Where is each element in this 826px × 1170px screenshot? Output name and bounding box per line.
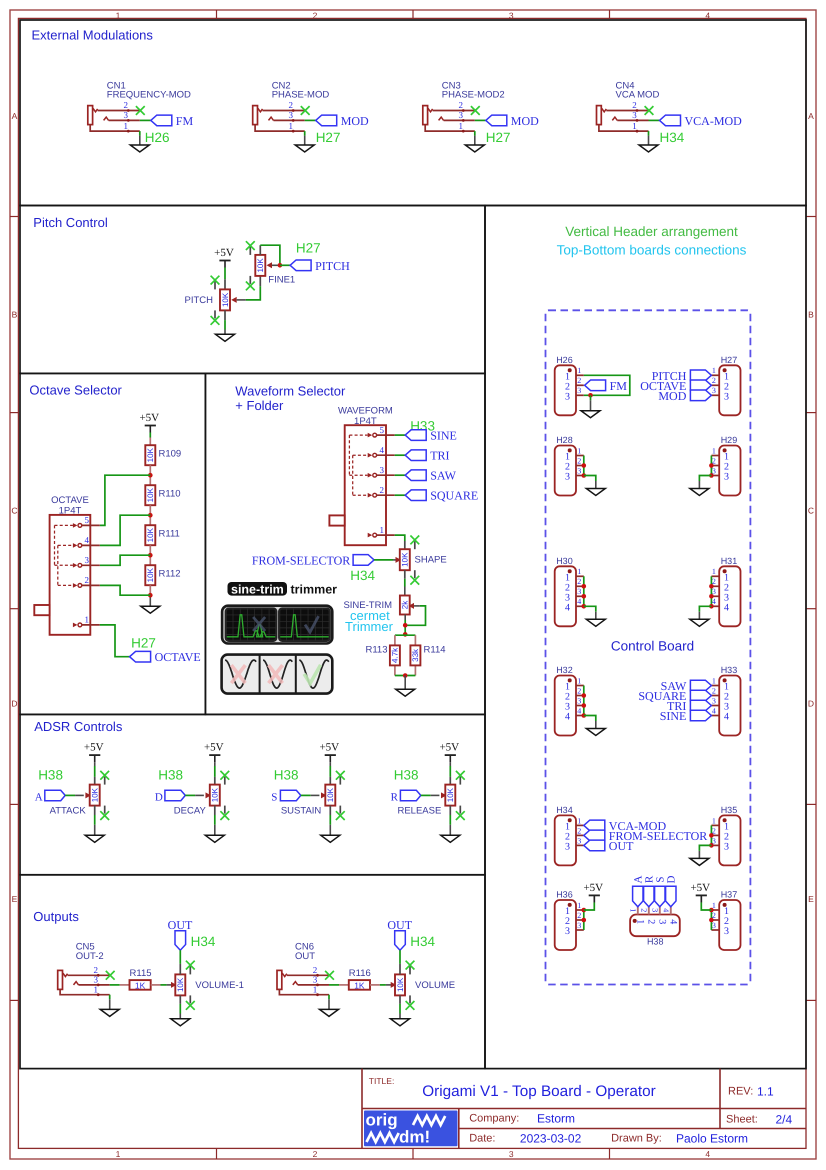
svg-text:Drawn By:: Drawn By: (611, 1132, 662, 1144)
svg-text:1: 1 (712, 567, 716, 576)
svg-text:Trimmer: Trimmer (345, 619, 394, 634)
junction FINE1 wiper node (278, 263, 283, 268)
logo origami (364, 1111, 458, 1147)
svg-text:FROM-SELECTOR: FROM-SELECTOR (252, 553, 350, 567)
svg-text:3: 3 (85, 555, 90, 565)
global label SQUARE (405, 490, 426, 501)
svg-text:1: 1 (85, 615, 90, 625)
wire SW pin3 to SAW (395, 474, 406, 476)
svg-text:VCA-MOD: VCA-MOD (685, 114, 743, 128)
svg-text:B: B (808, 310, 814, 320)
svg-text:3: 3 (632, 110, 637, 120)
svg-text:2: 2 (577, 456, 581, 465)
global label A (H38 pin1) (633, 886, 643, 907)
svg-text:2: 2 (712, 376, 716, 385)
svg-text:10K: 10K (211, 787, 220, 802)
svg-text:3: 3 (724, 472, 729, 483)
svg-text:10K: 10K (146, 567, 155, 582)
svg-text:OUT: OUT (609, 839, 634, 853)
svg-text:10K: 10K (401, 552, 410, 567)
svg-text:1K: 1K (135, 980, 146, 990)
svg-text:5: 5 (379, 425, 384, 435)
section box right (headers) (485, 206, 806, 1069)
svg-text:2: 2 (313, 1149, 318, 1159)
pot FINE1 bottom pin (259, 276, 261, 286)
svg-text:3: 3 (724, 926, 729, 937)
wire parallel top rail (395, 634, 416, 636)
svg-text:1: 1 (632, 121, 637, 131)
wire H30 ground chain (583, 576, 585, 606)
wire R109-R110 (149, 465, 151, 485)
svg-text:2: 2 (712, 686, 716, 695)
svg-text:PHASE-MOD2: PHASE-MOD2 (442, 90, 505, 101)
resistor R111 (10K) (145, 525, 155, 545)
svg-text:3: 3 (712, 386, 716, 395)
svg-text:MOD: MOD (511, 114, 539, 128)
svg-text:H26: H26 (145, 130, 170, 145)
svg-text:R116: R116 (349, 968, 371, 979)
svg-text:TITLE:: TITLE: (369, 1076, 395, 1086)
svg-text:VOLUME: VOLUME (415, 980, 455, 991)
svg-text:H38: H38 (394, 768, 419, 783)
svg-text:1: 1 (712, 816, 716, 825)
svg-text:4.7k: 4.7k (391, 647, 400, 663)
svg-text:4: 4 (712, 706, 716, 715)
wire H29 ground chain (710, 456, 712, 476)
svg-text:D: D (665, 875, 677, 883)
svg-text:Octave Selector: Octave Selector (29, 383, 122, 398)
svg-text:Outputs: Outputs (33, 909, 79, 924)
resistor R114 pins (414, 645, 416, 647)
wire H37 +5V chain (710, 910, 712, 930)
global label OCTAVE (H27 pin2) (690, 380, 711, 391)
svg-text:R110: R110 (159, 489, 181, 500)
svg-text:3: 3 (565, 926, 570, 937)
svg-text:SINE: SINE (430, 429, 457, 443)
svg-text:3: 3 (724, 841, 729, 852)
wire SW pin4 to TRI (395, 454, 406, 456)
svg-text:3: 3 (124, 110, 129, 120)
svg-text:3: 3 (577, 921, 581, 930)
global label PITCH (290, 260, 311, 271)
wire FINE1 top to wiper junction (260, 245, 280, 265)
resistor R113 pins (394, 645, 396, 647)
junction node R109/R110 (148, 473, 153, 478)
svg-text:D: D (808, 699, 814, 709)
wire SW pin1 to SHAPE pot (395, 535, 405, 541)
svg-text:4: 4 (577, 706, 581, 715)
svg-text:H34: H34 (410, 934, 435, 949)
pot PITCH wiper arrow (231, 297, 237, 303)
svg-text:4: 4 (724, 712, 729, 723)
svg-text:D: D (11, 699, 17, 709)
pot FINE1 wiper arrow (267, 262, 273, 268)
global label MOD (H27 pin3) (690, 390, 711, 401)
svg-text:Control Board: Control Board (611, 639, 694, 654)
svg-text:H27: H27 (486, 130, 511, 145)
wire bottom node to ground (404, 676, 406, 690)
section box Pitch Control (20, 206, 485, 374)
svg-text:C: C (11, 506, 17, 516)
section box Octave Selector (20, 373, 205, 714)
svg-text:ATTACK: ATTACK (50, 805, 87, 816)
wire R112 to ground (149, 585, 151, 595)
svg-text:H28: H28 (556, 435, 573, 445)
svg-text:Origami V1 - Top Board - Opera: Origami V1 - Top Board - Operator (422, 1083, 656, 1100)
svg-text:Estorm: Estorm (537, 1112, 575, 1126)
svg-text:H29: H29 (721, 435, 738, 445)
svg-text:Sheet:: Sheet: (726, 1113, 758, 1125)
svg-text:VCA MOD: VCA MOD (616, 90, 660, 101)
resistor R109 (10K) (145, 445, 155, 465)
svg-text:10K: 10K (446, 787, 455, 802)
wire SHAPE to trimmer (404, 579, 406, 587)
wire H35 ground chain (710, 825, 712, 845)
svg-text:33k: 33k (411, 648, 420, 662)
global label OCTAVE (130, 651, 151, 662)
wire FROM-SELECTOR to wiper (374, 559, 393, 561)
wire SW pin5 to SINE (395, 434, 406, 436)
svg-text:3: 3 (379, 465, 384, 475)
svg-text:Waveform Selector: Waveform Selector (235, 384, 346, 399)
global label SINE (405, 430, 426, 441)
svg-text:4: 4 (705, 1149, 710, 1159)
svg-text:SAW: SAW (430, 469, 456, 483)
ground (octave ladder) (141, 606, 160, 613)
svg-text:trimmer: trimmer (291, 582, 338, 596)
image spectrum left (wrong, X) (226, 609, 276, 641)
pot PITCH top pin (224, 279, 226, 289)
global label SAW (405, 470, 426, 481)
svg-text:H37: H37 (721, 890, 738, 900)
svg-text:1: 1 (313, 984, 318, 994)
global label S (H38 pin3) (655, 886, 665, 907)
svg-text:Vertical Header arrangement: Vertical Header arrangement (565, 224, 738, 239)
svg-text:1: 1 (577, 446, 581, 455)
svg-text:OUT-2: OUT-2 (76, 951, 104, 962)
svg-text:3: 3 (712, 696, 716, 705)
svg-text:VOLUME-1: VOLUME-1 (195, 980, 244, 991)
badge sine-trim trimmer (228, 582, 288, 596)
section box ADSR Controls (20, 714, 485, 874)
svg-text:B: B (12, 310, 18, 320)
svg-text:3: 3 (509, 1149, 514, 1159)
svg-text:10K: 10K (146, 527, 155, 542)
svg-text:1K: 1K (354, 980, 365, 990)
svg-text:2: 2 (577, 911, 581, 920)
svg-text:SUSTAIN: SUSTAIN (281, 805, 322, 816)
svg-text:10K: 10K (91, 787, 100, 802)
wire +5V to R109 (149, 433, 151, 438)
junction H26 pin3 node (588, 393, 593, 398)
svg-text:2: 2 (640, 908, 649, 912)
svg-text:3: 3 (288, 110, 293, 120)
svg-text:1: 1 (124, 121, 129, 131)
svg-text:3: 3 (577, 386, 581, 395)
svg-text:PHASE-MOD: PHASE-MOD (272, 90, 330, 101)
svg-text:4: 4 (724, 602, 729, 613)
svg-text:1: 1 (629, 908, 638, 912)
svg-text:4: 4 (565, 602, 570, 613)
svg-text:H38: H38 (38, 768, 63, 783)
svg-text:4: 4 (667, 919, 678, 924)
wire SW pin2 to SQUARE (395, 494, 406, 496)
svg-text:2: 2 (313, 11, 318, 21)
switch OCTAVE linkage (54, 525, 56, 565)
svg-text:4: 4 (705, 11, 710, 21)
svg-text:+5V: +5V (204, 742, 224, 754)
trimmer bottom pin (404, 615, 406, 621)
svg-text:FM: FM (610, 379, 628, 393)
svg-text:C: C (808, 506, 814, 516)
wire R111-R112 (149, 545, 151, 565)
svg-text:H34: H34 (350, 568, 375, 583)
svg-text:dm!: dm! (399, 1128, 430, 1147)
global label D (H38 pin4) (666, 886, 676, 907)
svg-text:1: 1 (577, 901, 581, 910)
svg-text:10K: 10K (396, 977, 405, 992)
svg-text:orig: orig (366, 1111, 398, 1130)
svg-text:Top-Bottom boards connections: Top-Bottom boards connections (557, 242, 747, 257)
svg-text:2: 2 (379, 485, 384, 495)
svg-text:H27: H27 (131, 635, 156, 650)
svg-text:4: 4 (379, 445, 384, 455)
junction node R112/gnd-tap (148, 593, 153, 598)
svg-text:RELEASE: RELEASE (397, 805, 441, 816)
wire trimmer wiper loop (405, 606, 425, 625)
svg-text:Paolo Estorm: Paolo Estorm (676, 1131, 748, 1145)
svg-text:3: 3 (577, 696, 581, 705)
svg-text:MOD: MOD (341, 114, 369, 128)
svg-text:1: 1 (116, 11, 121, 21)
svg-text:4: 4 (85, 535, 90, 545)
svg-text:H38: H38 (647, 937, 664, 947)
svg-text:2023-03-02: 2023-03-02 (520, 1131, 582, 1145)
image spectrum right (good, check) (279, 609, 330, 641)
svg-text:10K: 10K (221, 292, 230, 307)
svg-text:3: 3 (724, 391, 729, 402)
svg-text:3: 3 (651, 908, 660, 912)
connector H38 (4-pin header horizontal) (630, 915, 680, 937)
svg-text:1: 1 (712, 446, 716, 455)
svg-text:2: 2 (288, 100, 293, 110)
svg-text:3: 3 (459, 110, 464, 120)
image folder waves container (222, 655, 333, 694)
image folder wave 3 (check) (299, 660, 329, 688)
resistor R110 (10K) (145, 485, 155, 505)
svg-text:3: 3 (577, 466, 581, 475)
junction R113/R114 bottom node (403, 673, 408, 678)
svg-text:+5V: +5V (139, 412, 159, 424)
svg-text:3: 3 (656, 919, 667, 924)
image folder wave 1 (X) (225, 660, 256, 688)
svg-text:10K: 10K (146, 447, 155, 462)
wire PITCH wiper to FINE1 bottom (246, 286, 260, 300)
svg-text:1: 1 (712, 676, 716, 685)
junction node R111/R112 (148, 553, 153, 558)
global label SQUARE (H33 pin2) (690, 690, 711, 701)
svg-text:MOD: MOD (658, 389, 686, 403)
global label FM (H26) (585, 380, 606, 391)
svg-text:2: 2 (85, 575, 90, 585)
svg-text:H35: H35 (721, 805, 738, 815)
svg-text:Company:: Company: (469, 1113, 519, 1125)
svg-text:A: A (12, 111, 18, 121)
svg-text:H36: H36 (556, 890, 573, 900)
svg-text:1: 1 (459, 121, 464, 131)
svg-text:3: 3 (313, 975, 318, 985)
svg-text:3: 3 (577, 836, 581, 845)
svg-text:+5V: +5V (439, 742, 459, 754)
section box Waveform Selector (205, 373, 485, 714)
pot SHAPE top pin (404, 541, 406, 549)
svg-text:TRI: TRI (430, 449, 449, 463)
svg-text:E: E (808, 894, 814, 904)
global label TRI (H33 pin3) (690, 700, 711, 711)
svg-text:Date:: Date: (469, 1132, 495, 1144)
svg-text:+ Folder: + Folder (235, 398, 284, 413)
svg-text:10K: 10K (256, 258, 265, 273)
wire tap2 to SW pin4 (100, 515, 151, 545)
svg-text:2: 2 (93, 965, 98, 975)
svg-text:4: 4 (577, 597, 581, 606)
ground (pitch) (216, 334, 235, 341)
wire SW pin1 to OCTAVE label (100, 625, 130, 657)
svg-text:2: 2 (313, 965, 318, 975)
svg-text:1: 1 (379, 525, 384, 535)
svg-text:1: 1 (577, 567, 581, 576)
svg-text:ADSR Controls: ADSR Controls (34, 719, 123, 734)
svg-text:H30: H30 (556, 556, 573, 566)
svg-text:H31: H31 (721, 556, 738, 566)
svg-text:2: 2 (645, 919, 656, 924)
wire trimmer bottom to node (404, 620, 406, 634)
svg-text:3: 3 (565, 391, 570, 402)
wire tap4 to SW pin2 (100, 585, 151, 595)
svg-text:FINE1: FINE1 (268, 275, 295, 286)
svg-text:+5V: +5V (214, 247, 234, 259)
pot SHAPE wiper arrow (396, 557, 402, 563)
svg-text:E: E (12, 894, 18, 904)
trimmer SINE-TRIM (2k) (400, 596, 410, 615)
junction node R110/R111 (148, 513, 153, 518)
svg-text:PITCH: PITCH (315, 259, 350, 273)
switch WAVEFORM linkage (348, 435, 350, 475)
wire H31 ground chain (710, 576, 712, 606)
svg-text:5: 5 (85, 515, 90, 525)
wire tap1 to SW pin5 (100, 475, 151, 525)
pot SHAPE bottom pin (404, 570, 406, 579)
wire parallel bottom rail (395, 675, 416, 677)
svg-text:1: 1 (577, 676, 581, 685)
svg-text:DECAY: DECAY (174, 805, 207, 816)
svg-text:1: 1 (93, 984, 98, 994)
svg-text:A: A (808, 111, 814, 121)
svg-text:10K: 10K (146, 487, 155, 502)
pot PITCH bottom pin (224, 310, 226, 320)
svg-text:1: 1 (288, 121, 293, 131)
potentiometer SHAPE (10K) (400, 549, 410, 570)
svg-text:H33: H33 (721, 665, 738, 675)
svg-text:H27: H27 (296, 241, 321, 256)
svg-text:H34: H34 (191, 934, 216, 949)
global label SAW (H33 pin1) (690, 680, 711, 691)
svg-text:2: 2 (577, 826, 581, 835)
svg-text:2: 2 (577, 376, 581, 385)
ground (H26) (581, 411, 600, 418)
potentiometer FINE1 (10K) (255, 255, 265, 276)
resistor R112 (10K) (145, 565, 155, 585)
svg-text:H26: H26 (556, 355, 573, 365)
svg-text:R: R (391, 791, 399, 803)
svg-text:4: 4 (662, 908, 671, 912)
svg-text:R113: R113 (365, 644, 387, 655)
svg-text:2: 2 (577, 577, 581, 586)
svg-text:PITCH: PITCH (185, 295, 214, 306)
svg-text:2: 2 (124, 100, 129, 110)
svg-text:10K: 10K (326, 787, 335, 802)
svg-text:1: 1 (577, 816, 581, 825)
svg-text:A: A (35, 791, 43, 803)
svg-text:H38: H38 (158, 768, 183, 783)
svg-text:OUT: OUT (295, 951, 315, 962)
svg-text:SQUARE: SQUARE (430, 489, 478, 503)
global label FROM-SELECTOR (353, 555, 374, 566)
svg-text:2: 2 (632, 100, 637, 110)
frame zone ticks (216, 10, 218, 19)
svg-text:1.1: 1.1 (757, 1085, 774, 1099)
svg-text:SHAPE: SHAPE (415, 555, 447, 566)
svg-text:2: 2 (577, 686, 581, 695)
svg-text:SINE: SINE (660, 709, 687, 723)
svg-text:H34: H34 (556, 805, 573, 815)
resistor R114 (33k) (410, 645, 420, 665)
svg-text:1: 1 (712, 366, 716, 375)
svg-text:H27: H27 (316, 130, 341, 145)
global label PITCH (H27 pin1) (690, 370, 711, 381)
wire H26 pin3 to ground (590, 395, 592, 400)
image folder wave 2 (X) (263, 660, 292, 688)
svg-text:sine-trim: sine-trim (231, 582, 284, 596)
svg-text:3: 3 (712, 921, 716, 930)
global label TRI (405, 450, 426, 461)
svg-text:FREQUENCY-MOD: FREQUENCY-MOD (107, 90, 191, 101)
trimmer wiper arrow (409, 603, 415, 609)
svg-text:Pitch Control: Pitch Control (33, 215, 108, 230)
svg-text:D: D (155, 791, 163, 803)
svg-text:3: 3 (93, 975, 98, 985)
section box Outputs (20, 875, 485, 1069)
svg-text:R114: R114 (424, 644, 446, 655)
global label OUT (H34 pin3) (584, 840, 605, 851)
wire H26 loop pins1-3 (584, 375, 630, 395)
svg-text:+5V: +5V (84, 742, 104, 754)
svg-text:4: 4 (565, 712, 570, 723)
svg-text:R115: R115 (130, 968, 152, 979)
global label VCA-MOD (H34 pin1) (584, 820, 605, 831)
wire tap3 to SW pin3 (100, 555, 151, 565)
svg-text:1: 1 (634, 919, 645, 924)
wire PITCH bottom to ground (224, 320, 226, 329)
junction trimmer wiper node (403, 623, 408, 628)
svg-text:2: 2 (459, 100, 464, 110)
svg-text:R111: R111 (159, 529, 180, 540)
svg-text:FM: FM (176, 114, 194, 128)
wire junction to PITCH label (280, 264, 290, 266)
title block lines (361, 1069, 363, 1149)
svg-text:External Modulations: External Modulations (32, 28, 154, 43)
junction R113/R114 top node (403, 632, 408, 637)
